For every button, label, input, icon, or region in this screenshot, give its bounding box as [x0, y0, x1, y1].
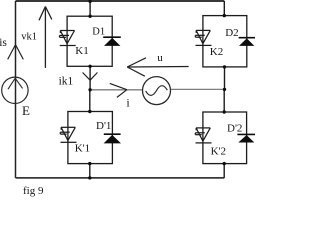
- svg-text:u: u: [157, 52, 163, 64]
- svg-text:is: is: [0, 37, 7, 49]
- wire: top bus to K1 box: [89, 1, 91, 16]
- svg-text:vk1: vk1: [21, 32, 37, 43]
- node: top bus / K1 branch: [88, 0, 91, 3]
- svg-text:K'2: K'2: [211, 146, 226, 158]
- svg-text:E: E: [22, 103, 30, 118]
- node: K'1 box bottom: [88, 162, 91, 165]
- svg-text:K1: K1: [75, 45, 88, 57]
- node: K2 box top: [223, 14, 226, 17]
- switch cell K'2/D'2 box: [203, 112, 247, 164]
- arrow u (pointing left): [127, 58, 188, 76]
- wire: K'2 box to bottom bus: [223, 164, 225, 178]
- switch cell K'1/D'1 box: [68, 112, 113, 164]
- arrow ik1 (pointing down): [83, 73, 98, 81]
- wire: middle bus right segment: [170, 88, 224, 90]
- thyristor K'2: [195, 128, 211, 143]
- node: K1 box top: [88, 15, 91, 18]
- wire: K'1 box to bottom bus: [89, 164, 91, 178]
- node: middle bus left junction: [88, 88, 91, 91]
- switch cell K2/D2 box: [203, 16, 247, 67]
- wire: K1 box to middle bus (ik1 branch): [89, 66, 91, 90]
- AC source circle: [143, 77, 171, 105]
- node: K'2 box bottom: [223, 162, 226, 165]
- thyristor K'1: [60, 127, 76, 142]
- wire: middle bus to K'2 box: [223, 89, 225, 112]
- svg-text:i: i: [126, 95, 130, 109]
- svg-text:D1: D1: [92, 26, 105, 37]
- wire: top bus: [16, 0, 225, 2]
- svg-text:D'2: D'2: [227, 122, 242, 134]
- AC source sine symbol: [146, 86, 168, 96]
- svg-text:K'1: K'1: [75, 142, 90, 154]
- arrow i (pointing right on middle bus): [110, 83, 127, 97]
- diode D'1: [104, 134, 121, 143]
- source E internal arrow: [8, 78, 23, 89]
- diode D'2: [237, 134, 255, 142]
- diode D1: [103, 37, 121, 46]
- wire: middle bus left segment (i): [90, 89, 143, 91]
- node: K'2 box top: [223, 110, 226, 113]
- svg-text:fig 9: fig 9: [23, 185, 44, 197]
- svg-text:D2: D2: [225, 27, 238, 39]
- wire: bottom bus: [16, 177, 225, 179]
- wire: middle bus to K'1 box: [89, 90, 91, 112]
- svg-text:K2: K2: [210, 46, 223, 58]
- switch cell K1/D1 box: [67, 16, 112, 66]
- thyristor K2: [195, 30, 211, 45]
- wire: K2 box to middle bus: [224, 67, 226, 89]
- arrow vk1: [39, 7, 52, 68]
- svg-text:D'1: D'1: [96, 120, 111, 132]
- svg-text:ik1: ik1: [59, 76, 74, 88]
- node: K2 box bottom: [223, 65, 226, 68]
- node: middle bus right junction: [223, 88, 226, 91]
- wire: top bus to K2 box: [223, 1, 225, 16]
- thyristor K1: [60, 31, 76, 46]
- source E circle: [2, 77, 28, 103]
- node: K1 box bottom: [88, 65, 91, 68]
- wire: left vertical branch (source is): [15, 1, 17, 178]
- node: bottom bus / K'1 branch: [88, 176, 91, 179]
- node: K'1 box top: [88, 110, 91, 113]
- arrow is (on left wire): [8, 45, 24, 60]
- diode D2: [239, 38, 255, 46]
